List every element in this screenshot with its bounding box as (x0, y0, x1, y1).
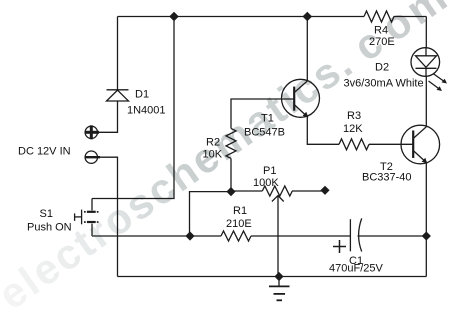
wire R3 to T2 base (369, 143, 413, 145)
potentiometer P1 (262, 186, 292, 196)
svg-text:BC337-40: BC337-40 (362, 172, 412, 184)
diode D1 (107, 89, 129, 91)
node dot ground (274, 272, 283, 281)
svg-text:T1: T1 (261, 113, 274, 125)
svg-text:BC547B: BC547B (244, 127, 285, 139)
minus terminal bar (85, 156, 100, 158)
svg-text:1N4001: 1N4001 (127, 105, 166, 117)
wire minus terminal down left rail (97, 157, 118, 276)
node dot R2 bottom (226, 187, 235, 196)
ground (278, 277, 280, 287)
D2 arrowhead 1 (442, 79, 448, 84)
svg-text:D2: D2 (375, 62, 389, 74)
svg-text:R1: R1 (233, 205, 247, 217)
svg-text:R3: R3 (347, 110, 361, 122)
svg-text:R4: R4 (374, 25, 388, 37)
wire R2 bottom stub (230, 158, 232, 191)
svg-text:R2: R2 (206, 137, 220, 149)
svg-text:270E: 270E (369, 36, 395, 48)
wire bottom rail (118, 276, 427, 278)
wire T2 collector up to LED (425, 76, 427, 127)
node dot C1 right (422, 231, 431, 240)
wire P1 row (231, 190, 262, 192)
wire C1 right to node (358, 235, 427, 237)
S1 top contact (87, 211, 96, 213)
wire D1 to plus terminal (97, 101, 118, 132)
plus terminal cross (85, 131, 99, 134)
wire T2 emitter down (425, 163, 427, 237)
svg-text:P1: P1 (263, 165, 276, 177)
terminal plus (85, 126, 97, 138)
T2 emitter arrowhead (422, 158, 428, 164)
svg-text:10K: 10K (203, 149, 223, 161)
capacitor C1 (349, 219, 351, 251)
node dot T1 collector (303, 12, 313, 22)
svg-text:3v6/30mA White: 3v6/30mA White (344, 78, 424, 90)
terminal minus (85, 151, 97, 163)
resistor R3 (339, 139, 369, 150)
svg-text:D1: D1 (135, 89, 149, 101)
T1 emitter arrowhead (303, 112, 309, 118)
wire branch node to R2 bottom (190, 192, 232, 236)
S1 bottom contact (87, 221, 96, 223)
wire vertical to S1 row (92, 17, 174, 199)
svg-text:470uF/25V: 470uF/25V (329, 263, 383, 275)
wire R2 top to T1 base (231, 99, 294, 128)
D2 arrowhead 2 (437, 86, 443, 91)
LED D2 (411, 48, 440, 77)
P1 wiper (277, 197, 279, 277)
transistor T2 (401, 125, 440, 164)
resistor R2 (226, 128, 236, 158)
switch S1 (91, 199, 93, 211)
node dot P1 right end (320, 186, 329, 195)
wire mid rail R1 to C1 (251, 235, 350, 237)
resistor R4 (364, 11, 394, 22)
transistor T1 (282, 79, 320, 117)
wire top rail down to LED anode (425, 17, 427, 48)
wire left vertical above D1 (117, 17, 119, 90)
capacitor C1 plus sign (333, 240, 346, 253)
resistor R1 (221, 231, 251, 241)
svg-text:210E: 210E (226, 218, 252, 230)
node dot top left (169, 12, 179, 22)
wire right node down (425, 236, 427, 277)
wire T1 collector up (306, 17, 308, 82)
wire top rail (118, 16, 365, 18)
svg-text:S1: S1 (40, 208, 53, 220)
wire T1 emitter down to R3 (307, 117, 339, 145)
svg-text:DC 12V IN: DC 12V IN (18, 146, 71, 158)
wire mid rail S1 to R1 (92, 235, 221, 237)
svg-text:Push ON: Push ON (27, 222, 72, 234)
svg-text:100K: 100K (253, 177, 279, 189)
svg-text:12K: 12K (343, 123, 363, 135)
node dot mid rail left (185, 231, 194, 240)
